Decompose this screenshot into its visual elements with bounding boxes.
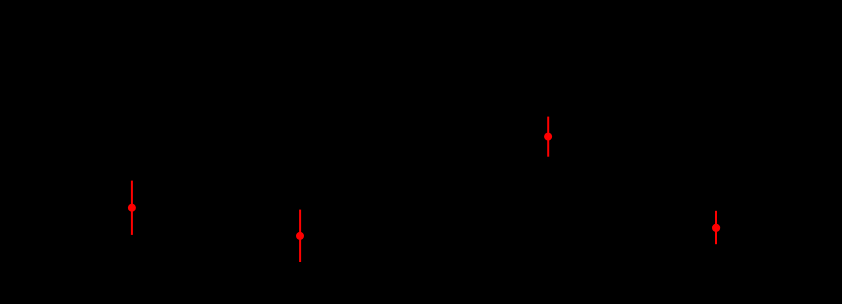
node B (junction dot on wire W2) [296,232,304,240]
node D (junction dot on wire W4) [712,224,720,232]
wire W3 (highlighted red vertical branch, centre-right) [547,117,549,157]
wire W2 (highlighted red vertical branch, centre-left) [299,210,301,262]
node A (junction dot on wire W1) [128,204,136,212]
wire W1 (highlighted red vertical branch, left) [131,181,133,235]
wire W4 (highlighted red vertical branch, right) [715,211,717,244]
node C (junction dot on wire W3) [544,133,552,141]
